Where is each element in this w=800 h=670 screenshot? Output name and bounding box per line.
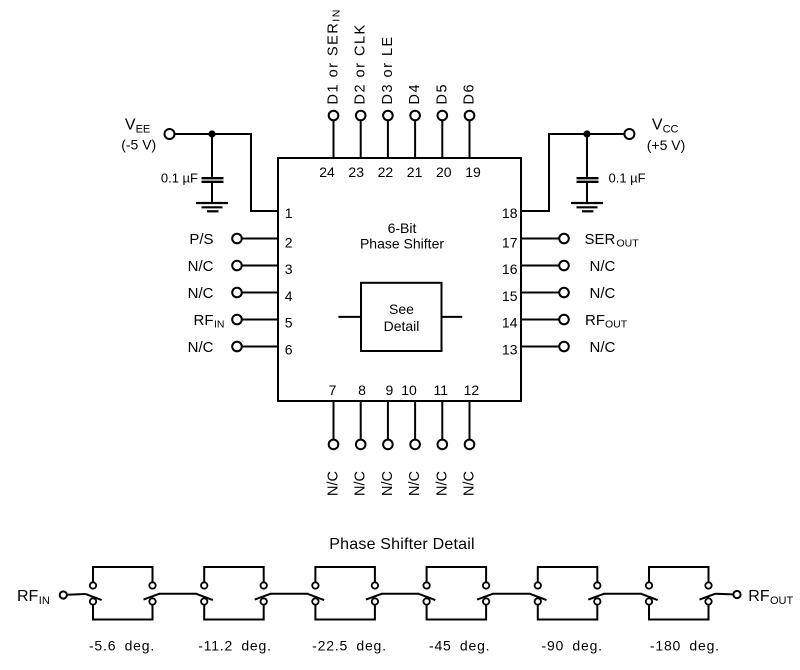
svg-text:19: 19 [465, 164, 481, 180]
svg-text:-5.6 deg.: -5.6 deg. [89, 638, 155, 654]
see-detail block inside U1 [338, 283, 462, 351]
svg-text:8: 8 [358, 382, 366, 398]
pin 20 terminal [438, 111, 448, 121]
pin 12 terminal [465, 440, 475, 450]
VCC supply terminal [624, 129, 634, 139]
svg-text:14: 14 [502, 315, 518, 331]
pin 15 terminal [559, 288, 569, 298]
pin 8 wire [360, 401, 362, 440]
pin 17 wire [521, 238, 559, 240]
pin 15 wire [521, 292, 559, 294]
pin 4 wire [242, 292, 278, 294]
wire section -90 to next section [604, 593, 642, 595]
pin 21 wire [414, 121, 416, 158]
phase shifter section -180 deg: delay path bottom [649, 605, 709, 620]
ground (VEE side) [196, 203, 228, 211]
svg-text:N/C: N/C [188, 339, 214, 356]
section -11.2 deg lower-right contact [261, 598, 267, 604]
pin 12 wire [469, 401, 471, 440]
section -5.6 deg lower-left contact [90, 598, 96, 604]
svg-text:6-Bit: 6-Bit [388, 220, 417, 236]
pin 5 wire [242, 319, 278, 321]
svg-text:20: 20 [436, 164, 452, 180]
pin 3 terminal [232, 261, 242, 271]
svg-text:3: 3 [285, 261, 293, 277]
svg-text:OUT: OUT [605, 319, 628, 331]
section -5.6 deg lower-right contact [149, 598, 155, 604]
section -22.5 deg upper-right contact [372, 582, 378, 588]
section -180 deg lower-right contact [705, 598, 711, 604]
svg-text:21: 21 [407, 164, 423, 180]
svg-text:Detail: Detail [384, 318, 420, 334]
svg-text:RF: RF [17, 588, 39, 605]
section -180 deg output switch lever [700, 594, 716, 600]
pin 23 terminal [356, 111, 366, 121]
svg-text:RF: RF [194, 312, 214, 329]
svg-text:N/C: N/C [188, 285, 214, 302]
svg-text:N/C: N/C [462, 471, 478, 496]
phase shifter section -11.2 deg: delay path bottom [204, 605, 264, 620]
pin 6 wire [242, 346, 278, 348]
section -5.6 deg output switch lever [144, 594, 160, 600]
svg-text:23: 23 [348, 164, 364, 180]
svg-text:IN: IN [39, 595, 50, 607]
section -90 deg upper-right contact [594, 582, 600, 588]
pin 13 wire [521, 346, 559, 348]
pin 11 terminal [438, 440, 448, 450]
svg-text:5: 5 [285, 315, 293, 331]
pin 20 wire [441, 121, 443, 158]
svg-text:(+5 V): (+5 V) [647, 137, 686, 153]
capacitor 0.1 uF (VCC) [577, 177, 599, 179]
wire section -22.5 to next section [381, 593, 419, 595]
svg-text:P/S: P/S [189, 231, 213, 248]
svg-text:SER: SER [585, 231, 616, 248]
svg-text:IN: IN [214, 319, 225, 331]
svg-text:18: 18 [502, 205, 518, 221]
svg-text:N/C: N/C [590, 258, 616, 275]
pin 4 terminal [232, 288, 242, 298]
svg-text:1: 1 [285, 205, 293, 221]
svg-text:D3 or LE: D3 or LE [380, 35, 396, 104]
svg-text:4: 4 [285, 288, 293, 304]
wire junction to capacitor [211, 134, 213, 177]
wire capacitor to ground [586, 183, 588, 202]
section -180 deg lower-left contact [646, 598, 652, 604]
RFOUT detail terminal [733, 591, 740, 598]
pin 22 terminal [383, 111, 393, 121]
IC U1 6-bit phase shifter body [278, 158, 521, 401]
section -180 deg input switch lever [641, 594, 657, 600]
pin 24 terminal [329, 111, 339, 121]
svg-text:RF: RF [585, 312, 605, 329]
svg-text:See: See [389, 301, 414, 317]
pin 8 terminal [356, 440, 366, 450]
section -22.5 deg input switch lever [308, 594, 324, 600]
pin 9 terminal [383, 440, 393, 450]
section -11.2 deg lower-left contact [201, 598, 207, 604]
svg-text:16: 16 [502, 261, 518, 277]
pin 13 terminal [559, 342, 569, 352]
section -5.6 deg input switch lever [85, 594, 101, 600]
svg-text:OUT: OUT [617, 238, 640, 250]
svg-text:N/C: N/C [407, 471, 423, 496]
section -11.2 deg upper-right contact [261, 582, 267, 588]
svg-text:24: 24 [319, 164, 335, 180]
section -45 deg output switch lever [477, 594, 493, 600]
pin 7 wire [333, 401, 335, 440]
pin 3 wire [242, 265, 278, 267]
wire section -11.2 to next section [270, 593, 308, 595]
phase shifter section -45 deg: delay path bottom [427, 605, 487, 620]
section -11.2 deg upper-left contact [201, 582, 207, 588]
section -45 deg lower-right contact [483, 598, 489, 604]
svg-text:0.1 µF: 0.1 µF [609, 171, 646, 186]
section -45 deg lower-left contact [423, 598, 429, 604]
svg-text:N/C: N/C [590, 339, 616, 356]
pin 6 terminal [232, 342, 242, 352]
svg-text:D2 or CLK: D2 or CLK [353, 23, 369, 104]
pin 24 wire [333, 121, 335, 158]
svg-text:22: 22 [378, 164, 394, 180]
section -5.6 deg upper-right contact [149, 582, 155, 588]
svg-text:-22.5 deg.: -22.5 deg. [312, 638, 387, 654]
phase shifter section -45 deg: bypass path top [427, 567, 487, 582]
pin 16 terminal [559, 261, 569, 271]
svg-text:N/C: N/C [326, 471, 342, 496]
section -90 deg input switch lever [530, 594, 546, 600]
junction VEE/capacitor node [208, 130, 215, 137]
section -11.2 deg input switch lever [197, 594, 213, 600]
phase shifter section -180 deg: bypass path top [649, 567, 709, 582]
ground (VCC side) [571, 203, 603, 211]
svg-text:2: 2 [285, 235, 293, 251]
svg-text:OUT: OUT [770, 595, 794, 607]
wire stub right of see-detail block [442, 316, 463, 318]
svg-text:D1 or SERIN: D1 or SERIN [326, 8, 343, 104]
section -180 deg upper-left contact [646, 582, 652, 588]
svg-text:-11.2 deg.: -11.2 deg. [198, 638, 272, 654]
section -90 deg lower-left contact [535, 598, 541, 604]
pin 2 terminal [232, 234, 242, 244]
wire last switch to RFOUT [716, 593, 734, 596]
pin 10 terminal [410, 440, 420, 450]
wire pin 18 to VCC terminal [521, 134, 624, 211]
svg-text:9: 9 [386, 382, 394, 398]
svg-text:N/C: N/C [353, 471, 369, 496]
svg-text:D5: D5 [434, 83, 450, 105]
pin 5 terminal [232, 315, 242, 325]
svg-text:-180 deg.: -180 deg. [650, 638, 720, 654]
wire section -5.6 to next section [159, 593, 197, 595]
pin 10 wire [414, 401, 416, 440]
phase shifter section -22.5 deg: bypass path top [315, 567, 375, 582]
svg-text:10: 10 [401, 382, 417, 398]
pin 14 terminal [559, 315, 569, 325]
wire capacitor to ground [211, 183, 213, 202]
wire junction to capacitor [586, 134, 588, 177]
svg-text:-90 deg.: -90 deg. [542, 638, 603, 654]
svg-text:D6: D6 [462, 83, 478, 105]
VEE supply terminal [165, 129, 175, 139]
phase shifter section -5.6 deg: bypass path top [93, 567, 153, 582]
svg-text:N/C: N/C [380, 471, 396, 496]
wire stub left of see-detail block [338, 316, 361, 318]
svg-text:-45 deg.: -45 deg. [429, 638, 490, 654]
section -22.5 deg lower-left contact [312, 598, 318, 604]
svg-text:6: 6 [285, 341, 293, 357]
svg-text:RF: RF [748, 588, 770, 605]
section -90 deg output switch lever [588, 594, 604, 600]
svg-text:13: 13 [502, 341, 518, 357]
capacitor 0.1 uF (VEE) [202, 177, 224, 179]
section -22.5 deg upper-left contact [312, 582, 318, 588]
RFIN detail terminal [60, 591, 67, 598]
pin 7 terminal [329, 440, 339, 450]
section -45 deg upper-right contact [483, 582, 489, 588]
wire section -45 to next section [493, 593, 531, 595]
pin 22 wire [387, 121, 389, 158]
svg-text:N/C: N/C [590, 285, 616, 302]
svg-text:N/C: N/C [434, 471, 450, 496]
svg-text:17: 17 [502, 235, 518, 251]
svg-text:Phase Shifter Detail: Phase Shifter Detail [329, 536, 474, 553]
svg-text:15: 15 [502, 288, 518, 304]
svg-text:12: 12 [464, 382, 480, 398]
svg-text:(-5 V): (-5 V) [121, 137, 156, 153]
junction VCC/capacitor node [583, 130, 590, 137]
section -90 deg lower-right contact [594, 598, 600, 604]
section -22.5 deg lower-right contact [372, 598, 378, 604]
svg-text:Phase Shifter: Phase Shifter [360, 235, 444, 251]
pin 11 wire [441, 401, 443, 440]
svg-text:0.1 µF: 0.1 µF [161, 171, 198, 186]
pin 2 wire [242, 238, 278, 240]
svg-text:11: 11 [434, 382, 449, 398]
phase shifter section -11.2 deg: bypass path top [204, 567, 264, 582]
svg-text:N/C: N/C [188, 258, 214, 275]
section -22.5 deg output switch lever [366, 594, 382, 600]
pin 21 terminal [410, 111, 420, 121]
pin 19 wire [469, 121, 471, 158]
pin 9 wire [387, 401, 389, 440]
section -11.2 deg output switch lever [255, 594, 271, 600]
phase shifter section -22.5 deg: delay path bottom [315, 605, 375, 620]
section -5.6 deg upper-left contact [90, 582, 96, 588]
svg-text:D4: D4 [407, 83, 423, 105]
section -45 deg input switch lever [419, 594, 435, 600]
pin 17 terminal [559, 234, 569, 244]
pin 16 wire [521, 265, 559, 267]
wire VEE terminal to pin 1 corner [175, 134, 278, 211]
svg-text:7: 7 [329, 382, 337, 398]
pin 14 wire [521, 319, 559, 321]
pin 23 wire [360, 121, 362, 158]
section -45 deg upper-left contact [423, 582, 429, 588]
section -180 deg upper-right contact [705, 582, 711, 588]
phase shifter section -90 deg: delay path bottom [538, 605, 598, 620]
phase shifter section -5.6 deg: delay path bottom [93, 605, 153, 620]
wire RFIN to first switch [67, 593, 86, 596]
section -90 deg upper-left contact [535, 582, 541, 588]
phase shifter section -90 deg: bypass path top [538, 567, 598, 582]
pin 19 terminal [465, 111, 475, 121]
